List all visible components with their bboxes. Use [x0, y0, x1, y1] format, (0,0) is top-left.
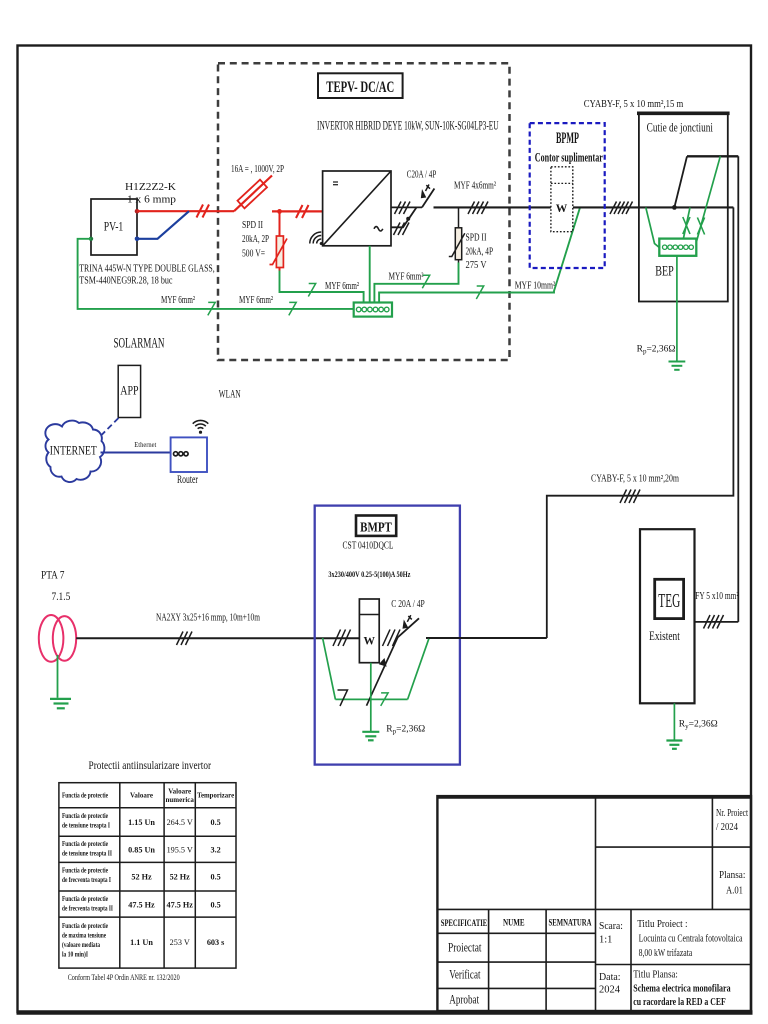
red cable double-slash mark 2 — [296, 205, 309, 218]
svg-text:7.1.5: 7.1.5 — [52, 591, 71, 603]
router wifi antenna — [193, 420, 209, 433]
hash marks AC output upper — [395, 202, 411, 215]
svg-text:TEG: TEG — [658, 590, 680, 612]
node DC junction — [277, 209, 282, 214]
svg-text:Temporizare: Temporizare — [197, 792, 234, 800]
wire AC bus to BPMP and junction box — [434, 206, 551, 208]
wire bus drop to BMPT feeder — [547, 207, 734, 638]
wire AC L output stub — [391, 206, 422, 208]
svg-text:52 Hz: 52 Hz — [131, 873, 152, 882]
svg-text:3x230/400V 0.25-5(100)A 50Hz: 3x230/400V 0.25-5(100)A 50Hz — [328, 569, 410, 579]
wire bus after BMPT breaker — [426, 637, 547, 639]
node PV earth terminal — [89, 237, 93, 241]
svg-text:INVERTOR HIBRID DEYE 10kW, SUN: INVERTOR HIBRID DEYE 10kW, SUN-10K-SG04L… — [317, 119, 499, 133]
svg-text:WLAN: WLAN — [219, 389, 241, 401]
svg-text:W: W — [556, 203, 568, 215]
BMPT title box — [356, 516, 396, 536]
specificatie header — [441, 917, 592, 929]
wire TEG to riser FY — [695, 621, 739, 623]
neutral isolating blade — [367, 638, 398, 706]
wire BMPT right earth diagonal — [408, 639, 429, 700]
table row 4 — [62, 895, 221, 913]
svg-text:NA2XY 3x25+16 mmp, 10m+10m: NA2XY 3x25+16 mmp, 10m+10m — [156, 613, 260, 624]
svg-text:FY 5 x10 mm²: FY 5 x10 mm² — [695, 591, 739, 602]
internet cloud — [45, 421, 104, 482]
svg-text:SEMNATURA: SEMNATURA — [549, 917, 592, 928]
svg-text:0.85 Un: 0.85 Un — [128, 846, 155, 855]
table row 5 — [62, 922, 224, 959]
wire BEP to ground — [676, 256, 678, 361]
junction box Cutie de jonctiuni — [637, 113, 730, 302]
BMPT enclosure — [315, 506, 460, 765]
svg-text:NUME: NUME — [503, 917, 525, 928]
dashed link APP to internet — [94, 418, 119, 443]
svg-text:47.5 Hz: 47.5 Hz — [167, 901, 194, 910]
svg-text:1:1: 1:1 — [599, 935, 612, 946]
svg-text:20kA, 2P: 20kA, 2P — [242, 234, 269, 245]
node PV+ terminal — [135, 209, 140, 214]
wire AC SPD earth green — [374, 263, 458, 303]
svg-text:/ 2024: / 2024 — [716, 822, 739, 833]
earth slash mark 4 — [422, 275, 429, 288]
svg-text:Functia de protectie: Functia de protectie — [62, 840, 108, 848]
svg-text:MYF 4x6mm²: MYF 4x6mm² — [454, 181, 496, 192]
svg-text:BEP: BEP — [655, 264, 674, 280]
svg-text:TSM-440NEG9R.28, 18 buc: TSM-440NEG9R.28, 18 buc — [79, 275, 172, 287]
svg-text:H1Z2Z2-K: H1Z2Z2-K — [125, 181, 176, 193]
energy meter W (BPMP) — [551, 167, 573, 232]
svg-text:Functia de protectie: Functia de protectie — [62, 867, 108, 875]
svg-text:Data:: Data: — [599, 972, 621, 983]
table row 2 — [62, 840, 221, 858]
wire to AC SPD — [458, 207, 460, 227]
svg-text:INTERNET: INTERNET — [50, 444, 97, 458]
svg-text:Functia de protectie: Functia de protectie — [62, 922, 108, 930]
node PV- terminal — [135, 237, 140, 242]
wire BEP middle green with X — [683, 207, 690, 238]
label Plansa — [719, 870, 745, 897]
circuit breaker C 20A/4P (BMPT) — [397, 615, 419, 638]
svg-text:SOLARMAN: SOLARMAN — [114, 336, 165, 352]
protection table grid — [59, 783, 236, 968]
label Titlu Proiect — [637, 919, 743, 959]
svg-text:1.1 Un: 1.1 Un — [130, 938, 153, 947]
APP box — [118, 365, 140, 417]
ethernet link — [101, 452, 171, 454]
svg-text:de frecventa treapta I: de frecventa treapta I — [62, 876, 111, 884]
svg-text:3.2: 3.2 — [210, 846, 220, 855]
svg-text:Titlu Proiect :: Titlu Proiect : — [637, 919, 687, 930]
svg-text:BMPT: BMPT — [360, 521, 392, 536]
hash marks bus after BPMP — [610, 202, 633, 215]
svg-text:Rp=2,36Ω: Rp=2,36Ω — [386, 725, 425, 736]
svg-text:253 V: 253 V — [170, 938, 190, 947]
earth bar BMPT — [335, 698, 407, 700]
SPD II DC labels — [242, 220, 269, 260]
earth slash mark 1 — [208, 302, 215, 315]
svg-text:Rp=2,36Ω: Rp=2,36Ω — [637, 345, 676, 356]
svg-text:16A = , 1000V, 2P: 16A = , 1000V, 2P — [231, 164, 284, 175]
svg-text:20kA, 4P: 20kA, 4P — [466, 247, 494, 258]
svg-text:52 Hz: 52 Hz — [170, 873, 191, 882]
label Scara — [599, 921, 623, 946]
earth slash mark 3 — [308, 284, 315, 297]
table row 3 — [62, 867, 221, 885]
svg-text:Functia de protectie: Functia de protectie — [62, 895, 108, 903]
svg-text:Aprobat: Aprobat — [449, 992, 479, 1007]
wire PTA to ground — [57, 655, 59, 698]
wire BEP left green V — [646, 207, 660, 247]
svg-text:Schema electrica monofilara: Schema electrica monofilara — [633, 984, 731, 995]
DC fuse-switch blade — [234, 176, 272, 212]
svg-text:MYF 6mm²: MYF 6mm² — [239, 295, 273, 306]
svg-text:2024: 2024 — [599, 985, 621, 996]
svg-text:numerica: numerica — [166, 796, 195, 804]
energy meter W (BMPT) — [359, 599, 379, 663]
svg-text:Scara:: Scara: — [599, 921, 623, 932]
wire DC SPD earth green — [280, 271, 364, 303]
wire LV feeder NA2XY — [76, 637, 359, 639]
svg-text:275 V: 275 V — [466, 260, 487, 271]
svg-text:Cutie de jonctiuni: Cutie de jonctiuni — [647, 121, 714, 135]
svg-text:8,00 kW trifazata: 8,00 kW trifazata — [639, 948, 693, 959]
svg-text:Plansa:: Plansa: — [719, 870, 745, 881]
earth terminal strip TEPV — [354, 303, 392, 317]
svg-text:(valoare mediata: (valoare mediata — [62, 941, 100, 949]
SPD II AC labels — [466, 233, 494, 272]
wire to DC SPD — [279, 211, 281, 236]
svg-text:CST 0410DQCL: CST 0410DQCL — [343, 541, 394, 552]
ground BEP — [669, 362, 686, 370]
wire BPMP earth green MYF 10mm2 — [379, 208, 580, 303]
op-amp style inverter box U1 — [323, 171, 391, 246]
svg-text:de maxima tensiune: de maxima tensiune — [62, 932, 106, 940]
wire AC N output stub — [391, 207, 417, 227]
svg-text:Conform Tabel 4P Ordin ANRE nr: Conform Tabel 4P Ordin ANRE nr. 132/2020 — [68, 973, 180, 982]
svg-text:MYF 6mm²: MYF 6mm² — [389, 272, 424, 283]
svg-text:A.01: A.01 — [726, 886, 743, 897]
svg-text:Titlu Plansa:: Titlu Plansa: — [633, 970, 678, 981]
svg-text:de tensiune treapta II: de tensiune treapta II — [62, 850, 112, 858]
node bus junction dot — [672, 205, 677, 210]
wire inverter earth green — [369, 246, 371, 303]
svg-text:Existent: Existent — [649, 628, 680, 643]
title block grid — [437, 796, 751, 1011]
svg-text:0.5: 0.5 — [210, 873, 220, 882]
svg-text:603 s: 603 s — [207, 938, 225, 947]
svg-text:MYF 6mm²: MYF 6mm² — [161, 295, 195, 306]
hash marks CYABY 20m — [620, 490, 640, 504]
ground PTA — [50, 699, 71, 708]
svg-text:APP: APP — [120, 383, 138, 398]
svg-text:47.5 Hz: 47.5 Hz — [128, 901, 155, 910]
table row 1 — [62, 812, 221, 830]
svg-text:de tensiune treapta I: de tensiune treapta I — [62, 822, 110, 830]
svg-text:SPD II: SPD II — [242, 220, 263, 231]
wire PV earth green long run — [78, 239, 354, 309]
hash marks TEG feeder — [704, 615, 724, 629]
PV module description — [79, 262, 215, 286]
svg-text:SPD II: SPD II — [466, 233, 487, 244]
label Data — [599, 972, 621, 996]
wire top line in junction box — [687, 155, 738, 157]
TEPV- DC/AC dashed enclosure — [218, 63, 510, 360]
table header row — [62, 788, 234, 805]
inverter wifi antenna — [307, 230, 328, 251]
router box — [171, 437, 207, 486]
svg-text:264.5 V: 264.5 V — [167, 818, 193, 827]
hash marks NA2XY — [177, 632, 193, 646]
svg-text:Locuinta cu Centrala fotovolta: Locuinta cu Centrala fotovoltaica — [639, 934, 743, 945]
svg-text:Valoare: Valoare — [130, 792, 153, 800]
svg-text:cu racordare la RED a CEF: cu racordare la RED a CEF — [633, 997, 726, 1008]
BEP earth terminal strip — [659, 239, 696, 256]
transformer PTA 7 — [39, 570, 76, 662]
svg-text:500 V=: 500 V= — [242, 249, 265, 260]
surge arrester SPD II DC — [270, 236, 288, 271]
svg-text:Nr. Proiect: Nr. Proiect — [716, 808, 748, 819]
svg-text:0.5: 0.5 — [210, 818, 220, 827]
svg-text:Router: Router — [177, 474, 198, 486]
wire DC bus to inverter — [272, 210, 323, 212]
svg-text:CYABY-F, 5 x 10 mm²,20m: CYABY-F, 5 x 10 mm²,20m — [591, 474, 679, 485]
ground TEG — [666, 741, 682, 749]
svg-text:la 10 min)I: la 10 min)I — [62, 951, 88, 959]
wire meter to earth bar and ground — [370, 663, 372, 731]
circuit breaker C20A/4P blade — [421, 185, 435, 208]
DC fuse body 16A — [238, 180, 268, 209]
wire riser diagonal to top line — [674, 156, 687, 207]
earth slash mark 2 — [289, 302, 296, 315]
svg-text:TEPV- DC/AC: TEPV- DC/AC — [326, 79, 394, 96]
svg-text:MYF 10mm²: MYF 10mm² — [515, 281, 556, 292]
svg-text:Protectii antiinsularizare inv: Protectii antiinsularizare invertor — [89, 760, 212, 772]
ground BMPT — [362, 732, 379, 741]
wire TEG to ground — [673, 703, 675, 739]
PV generator box PV-1 — [91, 199, 137, 255]
svg-text:1 x 6 mmp: 1 x 6 mmp — [127, 194, 177, 206]
BPMP dashed enclosure — [530, 123, 605, 268]
svg-text:PV-1: PV-1 — [104, 219, 124, 234]
TEG existing panel box — [640, 529, 695, 703]
label Nr. Proiect — [716, 808, 748, 833]
svg-text:Functia de protectie: Functia de protectie — [62, 812, 108, 820]
svg-text:C 20A / 4P: C 20A / 4P — [391, 599, 425, 610]
svg-text:1.15 Un: 1.15 Un — [128, 818, 155, 827]
svg-text:PTA 7: PTA 7 — [41, 570, 65, 582]
wire BEP right green with X — [697, 156, 721, 241]
svg-text:Ethernet: Ethernet — [134, 441, 156, 449]
red cable double-slash mark — [197, 205, 210, 218]
svg-text:Functia de protectie: Functia de protectie — [62, 792, 108, 800]
earth slash mark BMPT — [381, 693, 388, 706]
node AC N dot — [406, 217, 410, 221]
hash marks BMPT left — [333, 630, 351, 647]
hash marks AC bus — [468, 202, 488, 215]
wire BMPT left earth diagonal — [323, 638, 336, 699]
wire DC- blue from PV-1 — [137, 211, 189, 239]
wire DC+ red from PV-1 — [137, 210, 234, 212]
svg-text:SPECIFICATIE: SPECIFICATIE — [441, 918, 488, 929]
svg-text:Ry=2,36Ω: Ry=2,36Ω — [679, 720, 718, 731]
TEPV- DC/AC title box — [318, 73, 403, 98]
PEN marker black — [338, 690, 348, 706]
wire drop to TEG (right vertical) — [737, 156, 739, 622]
hash marks AC output lower — [394, 223, 410, 236]
svg-text:C20A / 4P: C20A / 4P — [407, 170, 437, 181]
svg-text:de frecventa treapta II: de frecventa treapta II — [62, 905, 113, 913]
svg-text:Verificat: Verificat — [449, 967, 480, 982]
svg-text:CYABY-F, 5 x 10 mm²,15 m: CYABY-F, 5 x 10 mm²,15 m — [584, 99, 684, 110]
hash marks BMPT right — [383, 630, 401, 647]
svg-text:MYF 6mm²: MYF 6mm² — [325, 281, 359, 292]
svg-text:W: W — [364, 636, 376, 648]
svg-text:195.5 V: 195.5 V — [167, 846, 193, 855]
svg-text:TRINA 445W-N TYPE DOUBLE GLASS: TRINA 445W-N TYPE DOUBLE GLASS, — [79, 262, 215, 274]
earth slash mark 5 — [476, 286, 483, 299]
svg-text:Contor suplimentar: Contor suplimentar — [535, 150, 603, 165]
svg-text:BPMP: BPMP — [556, 130, 579, 147]
svg-text:Proiectat: Proiectat — [448, 940, 482, 955]
label Titlu Plansa — [633, 970, 731, 1008]
surge arrester SPD II AC — [449, 228, 465, 263]
svg-text:0.5: 0.5 — [210, 901, 220, 910]
svg-text:Valoare: Valoare — [168, 788, 191, 796]
